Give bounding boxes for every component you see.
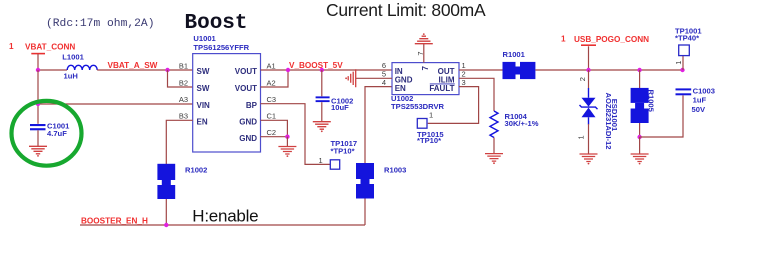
ground pin7 flipped bbox=[415, 33, 433, 44]
IC U1002 box TPS2553DRVR bbox=[392, 63, 459, 95]
svg-text:TPS61256YFFR: TPS61256YFFR bbox=[193, 43, 249, 52]
wire VBAT_A_SW bbox=[97, 69, 193, 71]
svg-text:GND: GND bbox=[239, 134, 257, 143]
svg-text:R1005: R1005 bbox=[647, 90, 656, 113]
svg-text:1: 1 bbox=[9, 42, 14, 51]
svg-text:7: 7 bbox=[421, 66, 430, 71]
wire R1002 to BOOSTER_EN_H bbox=[165, 199, 167, 225]
wire pin5 GND bbox=[356, 77, 392, 79]
svg-text:R1001: R1001 bbox=[503, 50, 526, 59]
node junction R1005 bbox=[637, 68, 641, 72]
svg-text:C1: C1 bbox=[267, 112, 277, 121]
resistor R1003 bbox=[356, 163, 374, 199]
wire C1003 bottom link bbox=[640, 95, 683, 137]
svg-text:(Rdc:17m ohm,2A): (Rdc:17m ohm,2A) bbox=[46, 18, 154, 30]
svg-text:FAULT: FAULT bbox=[429, 84, 454, 93]
ground pin5 sideways bbox=[345, 69, 356, 87]
svg-text:A2: A2 bbox=[267, 78, 276, 87]
wire EN B3 bbox=[166, 120, 192, 164]
svg-text:TPS2553DRVR: TPS2553DRVR bbox=[391, 102, 445, 111]
capacitor C1003 bbox=[676, 88, 692, 95]
svg-text:A1: A1 bbox=[267, 61, 276, 70]
svg-text:B3: B3 bbox=[179, 112, 188, 121]
svg-text:50V: 50V bbox=[692, 105, 706, 114]
wire C1 bbox=[261, 120, 288, 136]
wire TP1001 stem bbox=[682, 56, 684, 70]
wire A3 bbox=[38, 103, 193, 105]
svg-text:3: 3 bbox=[462, 78, 466, 87]
resistor R1005 bbox=[631, 88, 649, 123]
wire R1003 bottom bbox=[364, 199, 366, 226]
inductor L1001 bbox=[67, 65, 97, 70]
wire C2 to ground bbox=[286, 137, 288, 147]
svg-text:Current Limit: 800mA: Current Limit: 800mA bbox=[326, 0, 486, 20]
wire OUT to R1001 bbox=[459, 69, 503, 71]
wire C3 to TP1017 bbox=[261, 104, 331, 165]
svg-text:U1001: U1001 bbox=[193, 34, 216, 43]
wire R1004 to ground bbox=[493, 138, 495, 154]
highlight green circle bbox=[12, 101, 82, 166]
ground C1001 bbox=[29, 146, 47, 157]
node junction TP1001/C1003 bbox=[680, 68, 684, 72]
svg-text:A3: A3 bbox=[179, 95, 188, 104]
svg-text:Boost: Boost bbox=[185, 12, 248, 35]
svg-text:B2: B2 bbox=[179, 78, 188, 87]
ground R1004 bbox=[485, 154, 503, 165]
wire V_BOOST_5V bbox=[261, 69, 393, 71]
wire C1002 bottom bbox=[321, 102, 323, 121]
wire R1003 top to EN pin4 bbox=[365, 87, 392, 163]
svg-text:ESD1001: ESD1001 bbox=[610, 99, 619, 132]
test point TP1017 bbox=[330, 160, 339, 169]
ground C1002 bbox=[313, 122, 331, 133]
net label 1 USB_POGO_CONN bbox=[561, 35, 649, 44]
svg-text:2: 2 bbox=[578, 77, 587, 81]
svg-text:*TP40*: *TP40* bbox=[675, 34, 699, 43]
svg-text:SW: SW bbox=[197, 84, 210, 93]
svg-text:C3: C3 bbox=[267, 95, 277, 104]
node junction B1/B2 bbox=[165, 68, 169, 72]
op-amp U1001 box TPS61256YFFR bbox=[193, 54, 261, 152]
connector USB_POGO_CONN symbol bbox=[581, 45, 596, 70]
svg-text:H:enable: H:enable bbox=[192, 207, 258, 226]
ground R1005 bbox=[631, 154, 649, 165]
svg-text:R1002: R1002 bbox=[185, 165, 207, 174]
wire R1005 top bbox=[639, 70, 641, 88]
node junction A1/A2 bbox=[286, 68, 290, 72]
net label 1 VBAT_CONN bbox=[9, 42, 75, 52]
svg-text:10uF: 10uF bbox=[331, 103, 349, 112]
wire B2 branch bbox=[168, 70, 193, 87]
wire R1005 to ground bbox=[639, 137, 641, 154]
svg-text:C2: C2 bbox=[267, 128, 277, 137]
ground C2 bbox=[278, 147, 296, 158]
svg-text:SW: SW bbox=[197, 67, 210, 76]
svg-text:4.7uF: 4.7uF bbox=[47, 129, 67, 138]
test point TP1001 bbox=[679, 45, 690, 56]
svg-text:R1003: R1003 bbox=[384, 166, 406, 175]
wire ESD bottom to ground bbox=[588, 124, 590, 154]
node junction C1002 bbox=[320, 68, 324, 72]
svg-text:BOOSTER_EN_H: BOOSTER_EN_H bbox=[81, 216, 148, 225]
node junction R1002 bbox=[164, 223, 168, 227]
wire C1002 top bbox=[321, 70, 323, 96]
svg-text:GND: GND bbox=[239, 117, 257, 126]
svg-text:EN: EN bbox=[197, 117, 208, 126]
svg-text:VOUT: VOUT bbox=[235, 67, 257, 76]
resistor R1002 bbox=[157, 164, 175, 199]
svg-text:*TP10*: *TP10* bbox=[417, 136, 441, 145]
svg-text:VOUT: VOUT bbox=[235, 84, 257, 93]
node junction A3 bbox=[36, 102, 40, 106]
svg-text:*TP10*: *TP10* bbox=[331, 146, 355, 155]
wire A2 branch bbox=[261, 70, 289, 87]
svg-text:L1001: L1001 bbox=[62, 53, 84, 62]
svg-text:1: 1 bbox=[561, 35, 566, 44]
wire C1001 to ground bbox=[37, 130, 39, 146]
svg-text:1: 1 bbox=[319, 156, 323, 165]
svg-text:EN: EN bbox=[395, 84, 406, 93]
svg-text:USB_POGO_CONN: USB_POGO_CONN bbox=[574, 35, 649, 44]
test point TP1015 bbox=[417, 119, 427, 129]
svg-text:1uH: 1uH bbox=[64, 71, 78, 80]
diode ESD1001 TVS bbox=[580, 88, 598, 125]
wire VBAT_CONN to L1001 bbox=[38, 69, 67, 71]
svg-text:30K/+-1%: 30K/+-1% bbox=[505, 119, 539, 128]
svg-text:BP: BP bbox=[246, 101, 258, 110]
wire FAULT to TP1015 bbox=[428, 87, 479, 124]
svg-text:1: 1 bbox=[429, 111, 433, 120]
ground ESD1001 bbox=[580, 154, 598, 165]
svg-text:4: 4 bbox=[382, 78, 386, 87]
node junction ESD bbox=[586, 68, 590, 72]
node junction R1005 bottom bbox=[637, 135, 641, 139]
wire R1001 to output net bbox=[535, 69, 682, 71]
resistor R1001 bbox=[503, 62, 536, 79]
resistor R1004 zigzag bbox=[490, 111, 498, 138]
svg-text:1uF: 1uF bbox=[693, 96, 707, 105]
wire ESD top bbox=[588, 70, 590, 88]
svg-text:VBAT_CONN: VBAT_CONN bbox=[25, 42, 75, 51]
svg-text:1: 1 bbox=[576, 135, 585, 139]
wire R1005 bottom bbox=[639, 123, 641, 137]
wire ILIM to R1004 bbox=[459, 78, 494, 111]
connector J VBAT_CONN symbol bbox=[31, 54, 45, 70]
capacitor C1002 bbox=[316, 96, 330, 102]
wire pin7 to ground bbox=[423, 44, 425, 63]
wire BOOSTER_EN_H bbox=[80, 224, 365, 226]
node junction VBAT bbox=[36, 68, 40, 72]
node junction C1/C2 bbox=[285, 135, 289, 139]
svg-text:VBAT_A_SW: VBAT_A_SW bbox=[108, 61, 158, 70]
wire C2 bbox=[261, 136, 288, 138]
capacitor C1001 bbox=[30, 124, 46, 130]
svg-text:VIN: VIN bbox=[197, 101, 211, 110]
wire VBAT down to C1001 bbox=[37, 70, 39, 124]
svg-text:V_BOOST_5V: V_BOOST_5V bbox=[289, 61, 343, 70]
svg-text:1: 1 bbox=[674, 61, 683, 65]
pin name FAULT bbox=[429, 84, 454, 93]
svg-text:C1003: C1003 bbox=[693, 87, 715, 96]
svg-text:B1: B1 bbox=[179, 61, 188, 70]
